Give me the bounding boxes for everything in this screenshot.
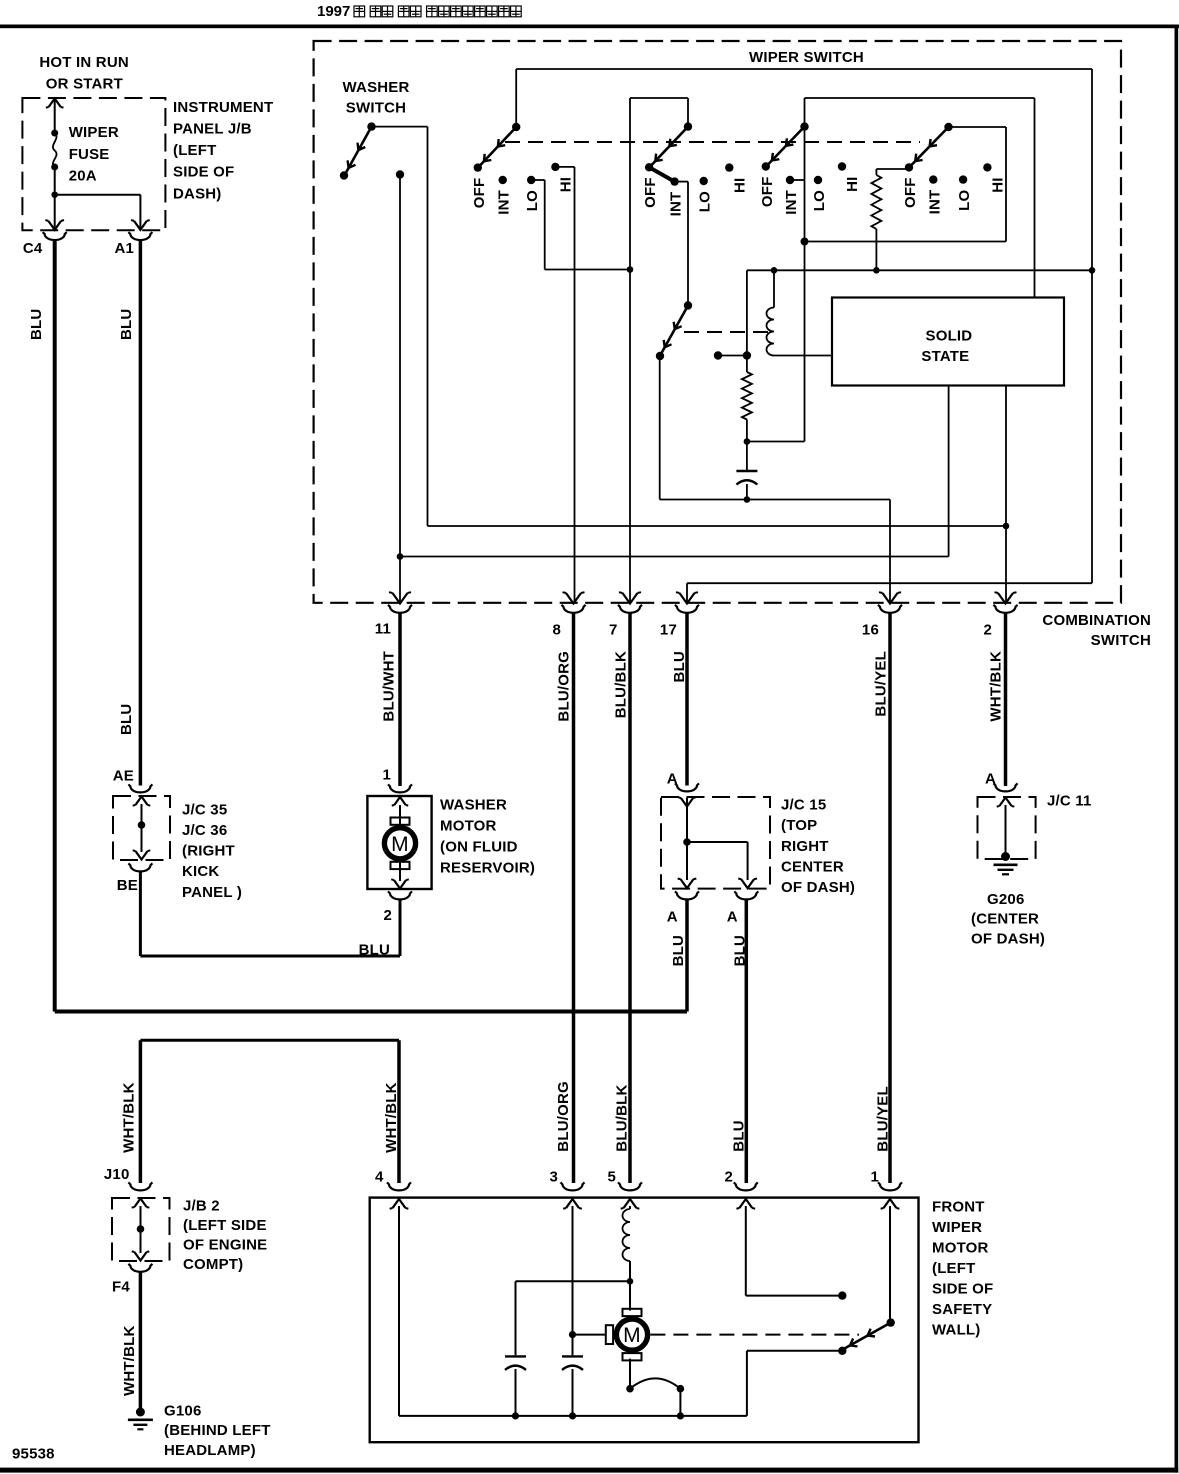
svg-text:WHT/BLK: WHT/BLK [120, 1082, 137, 1153]
svg-text:FUSE: FUSE [69, 146, 110, 163]
svg-text:1997: 1997 [317, 3, 350, 20]
svg-text:COMBINATION: COMBINATION [1042, 612, 1151, 629]
svg-text:SWITCH: SWITCH [346, 100, 406, 117]
svg-text:BLU: BLU [671, 651, 688, 682]
svg-text:HOT IN RUN: HOT IN RUN [39, 54, 128, 71]
svg-text:J/C 36: J/C 36 [182, 822, 227, 839]
svg-text:MOTOR: MOTOR [932, 1239, 989, 1256]
svg-text:BLU/ORG: BLU/ORG [555, 1081, 572, 1152]
svg-text:OFF: OFF [642, 177, 659, 208]
svg-text:SIDE OF: SIDE OF [173, 164, 234, 181]
svg-text:J/C 15: J/C 15 [781, 796, 826, 813]
svg-text:5: 5 [607, 1168, 616, 1185]
svg-text:RIGHT: RIGHT [781, 838, 829, 855]
svg-text:7: 7 [609, 621, 618, 638]
svg-text:PANEL ): PANEL ) [182, 884, 242, 901]
svg-text:HI: HI [989, 177, 1006, 192]
svg-text:J/C 11: J/C 11 [1047, 792, 1092, 809]
svg-text:WASHER: WASHER [343, 79, 410, 96]
svg-text:WHT/BLK: WHT/BLK [988, 651, 1005, 722]
svg-text:BLU: BLU [670, 935, 687, 966]
svg-text:OFF: OFF [471, 178, 488, 209]
svg-text:COMPT): COMPT) [183, 1256, 243, 1273]
svg-text:11: 11 [375, 620, 391, 637]
svg-text:BLU: BLU [731, 935, 748, 966]
svg-text:J/B 2: J/B 2 [183, 1197, 220, 1214]
svg-text:(BEHIND LEFT: (BEHIND LEFT [164, 1422, 271, 1439]
svg-text:(LEFT: (LEFT [932, 1260, 976, 1277]
svg-text:OF DASH): OF DASH) [971, 930, 1045, 947]
svg-text:PANEL J/B: PANEL J/B [173, 121, 252, 138]
svg-text:BLU/ORG: BLU/ORG [556, 651, 573, 722]
svg-text:F4: F4 [112, 1278, 130, 1295]
svg-text:A: A [667, 908, 678, 925]
svg-text:HI: HI [557, 177, 574, 192]
svg-text:KICK: KICK [182, 863, 219, 880]
svg-text:BLU: BLU [731, 1120, 748, 1151]
svg-text:BE: BE [117, 877, 138, 894]
svg-text:MOTOR: MOTOR [440, 818, 497, 835]
svg-text:BLU/YEL: BLU/YEL [875, 1086, 892, 1152]
svg-text:BLU/BLK: BLU/BLK [614, 1084, 631, 1151]
svg-text:8: 8 [552, 621, 561, 638]
svg-text:LO: LO [697, 191, 714, 212]
svg-text:RESERVOIR): RESERVOIR) [440, 860, 535, 877]
svg-text:WALL): WALL) [932, 1321, 980, 1338]
svg-text:WIPER: WIPER [932, 1219, 982, 1236]
svg-text:BLU/WHT: BLU/WHT [381, 651, 398, 722]
svg-text:WHT/BLK: WHT/BLK [383, 1082, 400, 1153]
svg-text:INT: INT [783, 190, 800, 215]
svg-text:(LEFT SIDE: (LEFT SIDE [183, 1217, 267, 1234]
svg-text:HEADLAMP): HEADLAMP) [164, 1442, 256, 1459]
svg-text:WIPER SWITCH: WIPER SWITCH [749, 49, 864, 66]
svg-text:SWITCH: SWITCH [1091, 632, 1151, 649]
svg-text:BLU/BLK: BLU/BLK [613, 651, 630, 718]
svg-text:(RIGHT: (RIGHT [182, 843, 235, 860]
svg-text:WHT/BLK: WHT/BLK [121, 1325, 138, 1396]
svg-text:STATE: STATE [921, 348, 969, 365]
svg-text:WASHER: WASHER [440, 797, 507, 814]
svg-text:BLU: BLU [359, 941, 390, 958]
svg-text:20A: 20A [69, 167, 97, 184]
svg-text:SIDE OF: SIDE OF [932, 1280, 993, 1297]
svg-text:(CENTER: (CENTER [971, 911, 1039, 928]
svg-text:OFF: OFF [759, 177, 776, 208]
svg-text:OF DASH): OF DASH) [781, 879, 855, 896]
svg-text:A: A [727, 908, 738, 925]
svg-text:J10: J10 [104, 1166, 130, 1183]
svg-text:INT: INT [668, 192, 685, 217]
svg-text:M: M [623, 1324, 641, 1347]
svg-text:BLU: BLU [118, 309, 135, 340]
svg-text:OR START: OR START [46, 76, 123, 93]
svg-text:DASH): DASH) [173, 185, 222, 202]
svg-text:2: 2 [383, 907, 392, 924]
svg-text:CENTER: CENTER [781, 859, 844, 876]
svg-text:17: 17 [660, 621, 677, 638]
svg-text:INSTRUMENT: INSTRUMENT [173, 99, 273, 116]
svg-text:16: 16 [862, 621, 879, 638]
svg-text:INT: INT [926, 190, 943, 215]
svg-text:SAFETY: SAFETY [932, 1301, 992, 1318]
svg-text:3: 3 [549, 1168, 558, 1185]
svg-text:BLU/YEL: BLU/YEL [873, 651, 890, 717]
svg-text:1: 1 [382, 766, 391, 783]
svg-text:WIPER: WIPER [69, 124, 119, 141]
svg-text:A: A [667, 770, 678, 787]
svg-text:HI: HI [731, 178, 748, 193]
svg-text:HI: HI [844, 177, 861, 192]
svg-text:M: M [391, 833, 409, 856]
svg-text:OFF: OFF [902, 177, 919, 208]
svg-text:(LEFT: (LEFT [173, 142, 217, 159]
svg-text:G206: G206 [987, 891, 1025, 908]
svg-text:95538: 95538 [12, 1445, 55, 1462]
svg-text:AE: AE [113, 767, 134, 784]
svg-text:4: 4 [375, 1168, 384, 1185]
svg-text:A: A [985, 770, 996, 787]
svg-text:G106: G106 [164, 1402, 202, 1419]
svg-text:1: 1 [870, 1168, 879, 1185]
svg-text:C4: C4 [23, 240, 43, 257]
svg-text:(TOP: (TOP [781, 817, 817, 834]
svg-text:SOLID: SOLID [926, 328, 973, 345]
svg-text:BLU: BLU [28, 309, 45, 340]
svg-text:LO: LO [811, 190, 828, 211]
svg-text:2: 2 [724, 1168, 733, 1185]
svg-text:J/C 35: J/C 35 [182, 801, 227, 818]
svg-text:(ON FLUID: (ON FLUID [440, 839, 518, 856]
svg-text:INT: INT [496, 190, 513, 215]
svg-text:LO: LO [956, 189, 973, 210]
svg-text:2: 2 [983, 621, 992, 638]
svg-text:A1: A1 [115, 240, 135, 257]
svg-text:OF ENGINE: OF ENGINE [183, 1237, 267, 1254]
svg-text:BLU: BLU [118, 704, 135, 735]
svg-text:LO: LO [524, 190, 541, 211]
svg-text:FRONT: FRONT [932, 1198, 985, 1215]
